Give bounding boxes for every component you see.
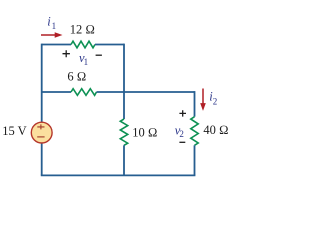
wire bottom bbox=[41, 174, 196, 176]
wire: right-top vertical from corner down through middle node to 10-ohm top bbox=[123, 44, 125, 119]
svg-text:15 V: 15 V bbox=[2, 124, 26, 138]
resistor R 12ohm zigzag bbox=[71, 41, 95, 48]
current arrow i1 bbox=[41, 34, 56, 36]
svg-text:10 Ω: 10 Ω bbox=[132, 126, 157, 140]
wire: left vertical upper (top corner to source) bbox=[41, 44, 43, 123]
svg-text:2: 2 bbox=[179, 129, 184, 139]
source plus sign bbox=[37, 124, 44, 129]
minus sign v1 bbox=[96, 54, 102, 56]
svg-text:6 Ω: 6 Ω bbox=[67, 70, 86, 84]
voltage source 15V circle bbox=[31, 122, 52, 143]
source minus sign bbox=[37, 136, 44, 138]
resistor R 6ohm zigzag bbox=[71, 89, 97, 96]
wire middle: left vertical to 6-ohm bbox=[42, 91, 71, 93]
wire: 40-ohm branch top bbox=[194, 91, 196, 117]
plus sign v1 bbox=[63, 50, 70, 57]
current arrow i2 bbox=[202, 89, 204, 105]
resistor R 40ohm zigzag bbox=[191, 117, 198, 146]
svg-text:1: 1 bbox=[84, 57, 89, 67]
resistor R 10ohm zigzag bbox=[120, 119, 127, 145]
wire middle: 6-ohm to right branch corner bbox=[97, 91, 195, 93]
svg-text:12 Ω: 12 Ω bbox=[70, 22, 95, 36]
minus sign v2 bbox=[179, 141, 185, 143]
wire: 40-ohm bottom to bottom wire bbox=[194, 145, 196, 175]
svg-text:2: 2 bbox=[213, 97, 218, 107]
wire top: 12-ohm to top-right corner bbox=[95, 44, 124, 46]
svg-text:1: 1 bbox=[52, 21, 57, 31]
wire: 10-ohm bottom to bottom wire bbox=[123, 145, 125, 175]
wire: left vertical lower (source to bottom corner) bbox=[41, 143, 43, 175]
wire top: left corner to 12-ohm bbox=[42, 44, 71, 46]
svg-text:40 Ω: 40 Ω bbox=[203, 123, 228, 137]
plus sign v2 bbox=[179, 110, 186, 116]
